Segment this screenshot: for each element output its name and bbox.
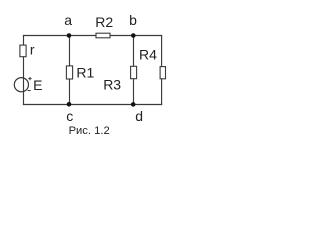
resistor R4 — [160, 67, 165, 79]
svg-text:E: E — [33, 77, 42, 93]
node c junction dot — [67, 102, 72, 107]
source E circle — [14, 78, 28, 92]
source E plus mark — [28, 77, 31, 80]
wire branch b-d — [133, 36, 135, 105]
resistor R1 — [66, 66, 72, 79]
svg-text:R1: R1 — [76, 64, 94, 80]
svg-text:R3: R3 — [103, 77, 121, 93]
wire bottom: node c-d rail — [23, 104, 162, 106]
node a junction dot — [67, 33, 72, 38]
resistor r — [20, 45, 26, 57]
wire branch a-c — [69, 36, 71, 105]
wire left branch — [23, 35, 25, 105]
svg-text:r: r — [30, 42, 35, 58]
svg-text:c: c — [66, 108, 73, 124]
wire top: node a-b rail — [23, 35, 162, 37]
node b junction dot — [131, 33, 136, 38]
svg-text:b: b — [129, 12, 137, 28]
resistor R3 — [131, 66, 137, 78]
svg-text:Рис. 1.2: Рис. 1.2 — [69, 125, 110, 137]
wire right branch — [161, 35, 163, 105]
resistor R2 — [96, 33, 110, 38]
svg-text:a: a — [64, 12, 72, 28]
node d junction dot — [131, 102, 136, 107]
source E minus mark — [28, 90, 31, 92]
svg-text:R2: R2 — [95, 14, 113, 30]
svg-text:d: d — [135, 108, 143, 124]
svg-text:R4: R4 — [139, 47, 157, 63]
